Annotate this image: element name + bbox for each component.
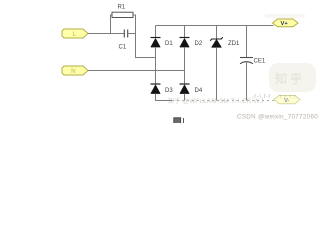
port L [62,29,88,38]
svg-text:ZD1: ZD1 [228,41,240,47]
wire node A to C1 left plate [111,33,125,35]
port N [62,66,88,75]
svg-text:D3: D3 [165,88,173,94]
wire CE1 bottom to bottom rail [246,62,248,100]
electrolytic capacitor CE1 [240,58,253,64]
wire RC node up to R1 left lead [111,15,113,34]
diode D3 [151,84,161,94]
diode D4 [180,84,190,94]
svg-text:D4: D4 [195,88,203,94]
svg-text:C1: C1 [119,45,127,51]
wire bottom rail faded part [172,100,274,102]
wire bottom rail solid part [155,100,172,102]
wire D1 branch upper [155,26,157,38]
svg-text:L: L [73,31,77,38]
caption 图1 partially cut at bottom edge [174,118,184,125]
wire CE1 branch upper [246,26,248,58]
wire node B to bridge left branch [135,57,156,59]
port V- faded by watermark [274,96,300,105]
svg-text:V-: V- [284,98,290,104]
wire R1 right lead down to node B [133,15,136,58]
diode D1 [151,38,161,48]
svg-text:R1: R1 [118,5,126,11]
wire N port to D2-D4 junction [88,70,185,72]
resistor R1 [112,12,133,17]
watermark text over bottom rail [168,94,298,105]
wire C1 right plate to node B [128,33,136,35]
wire D2 branch upper [184,26,186,38]
wire ZD1 branch upper [216,26,218,39]
wire ZD1 anode to bottom rail [216,47,218,100]
svg-text:知乎: 知乎 [274,71,305,86]
wire L port to RC node [88,33,111,35]
watermark CSDN logo blob right side [265,14,316,92]
svg-text:CSDN @weixin_70772060: CSDN @weixin_70772060 [237,114,318,121]
wire D4 anode to bottom rail [184,94,186,101]
wire D3 anode to bottom rail [155,94,157,101]
svg-text:D2: D2 [195,41,203,47]
svg-text:N: N [71,68,76,75]
svg-text:V+: V+ [281,21,289,27]
port V+ [273,19,299,27]
svg-text:CE1: CE1 [254,59,266,65]
zener diode ZD1 [210,37,223,47]
diode D2 [180,38,190,48]
svg-text:.r-i.t-r: .r-i.t-r [252,94,271,100]
wire top rail [156,25,274,27]
capacitor C1 [124,30,127,38]
wire D1 anode down through L junction to D3 [155,47,157,84]
svg-text:D1: D1 [165,41,173,47]
wire D2 anode down through N junction to D4 [184,47,186,84]
